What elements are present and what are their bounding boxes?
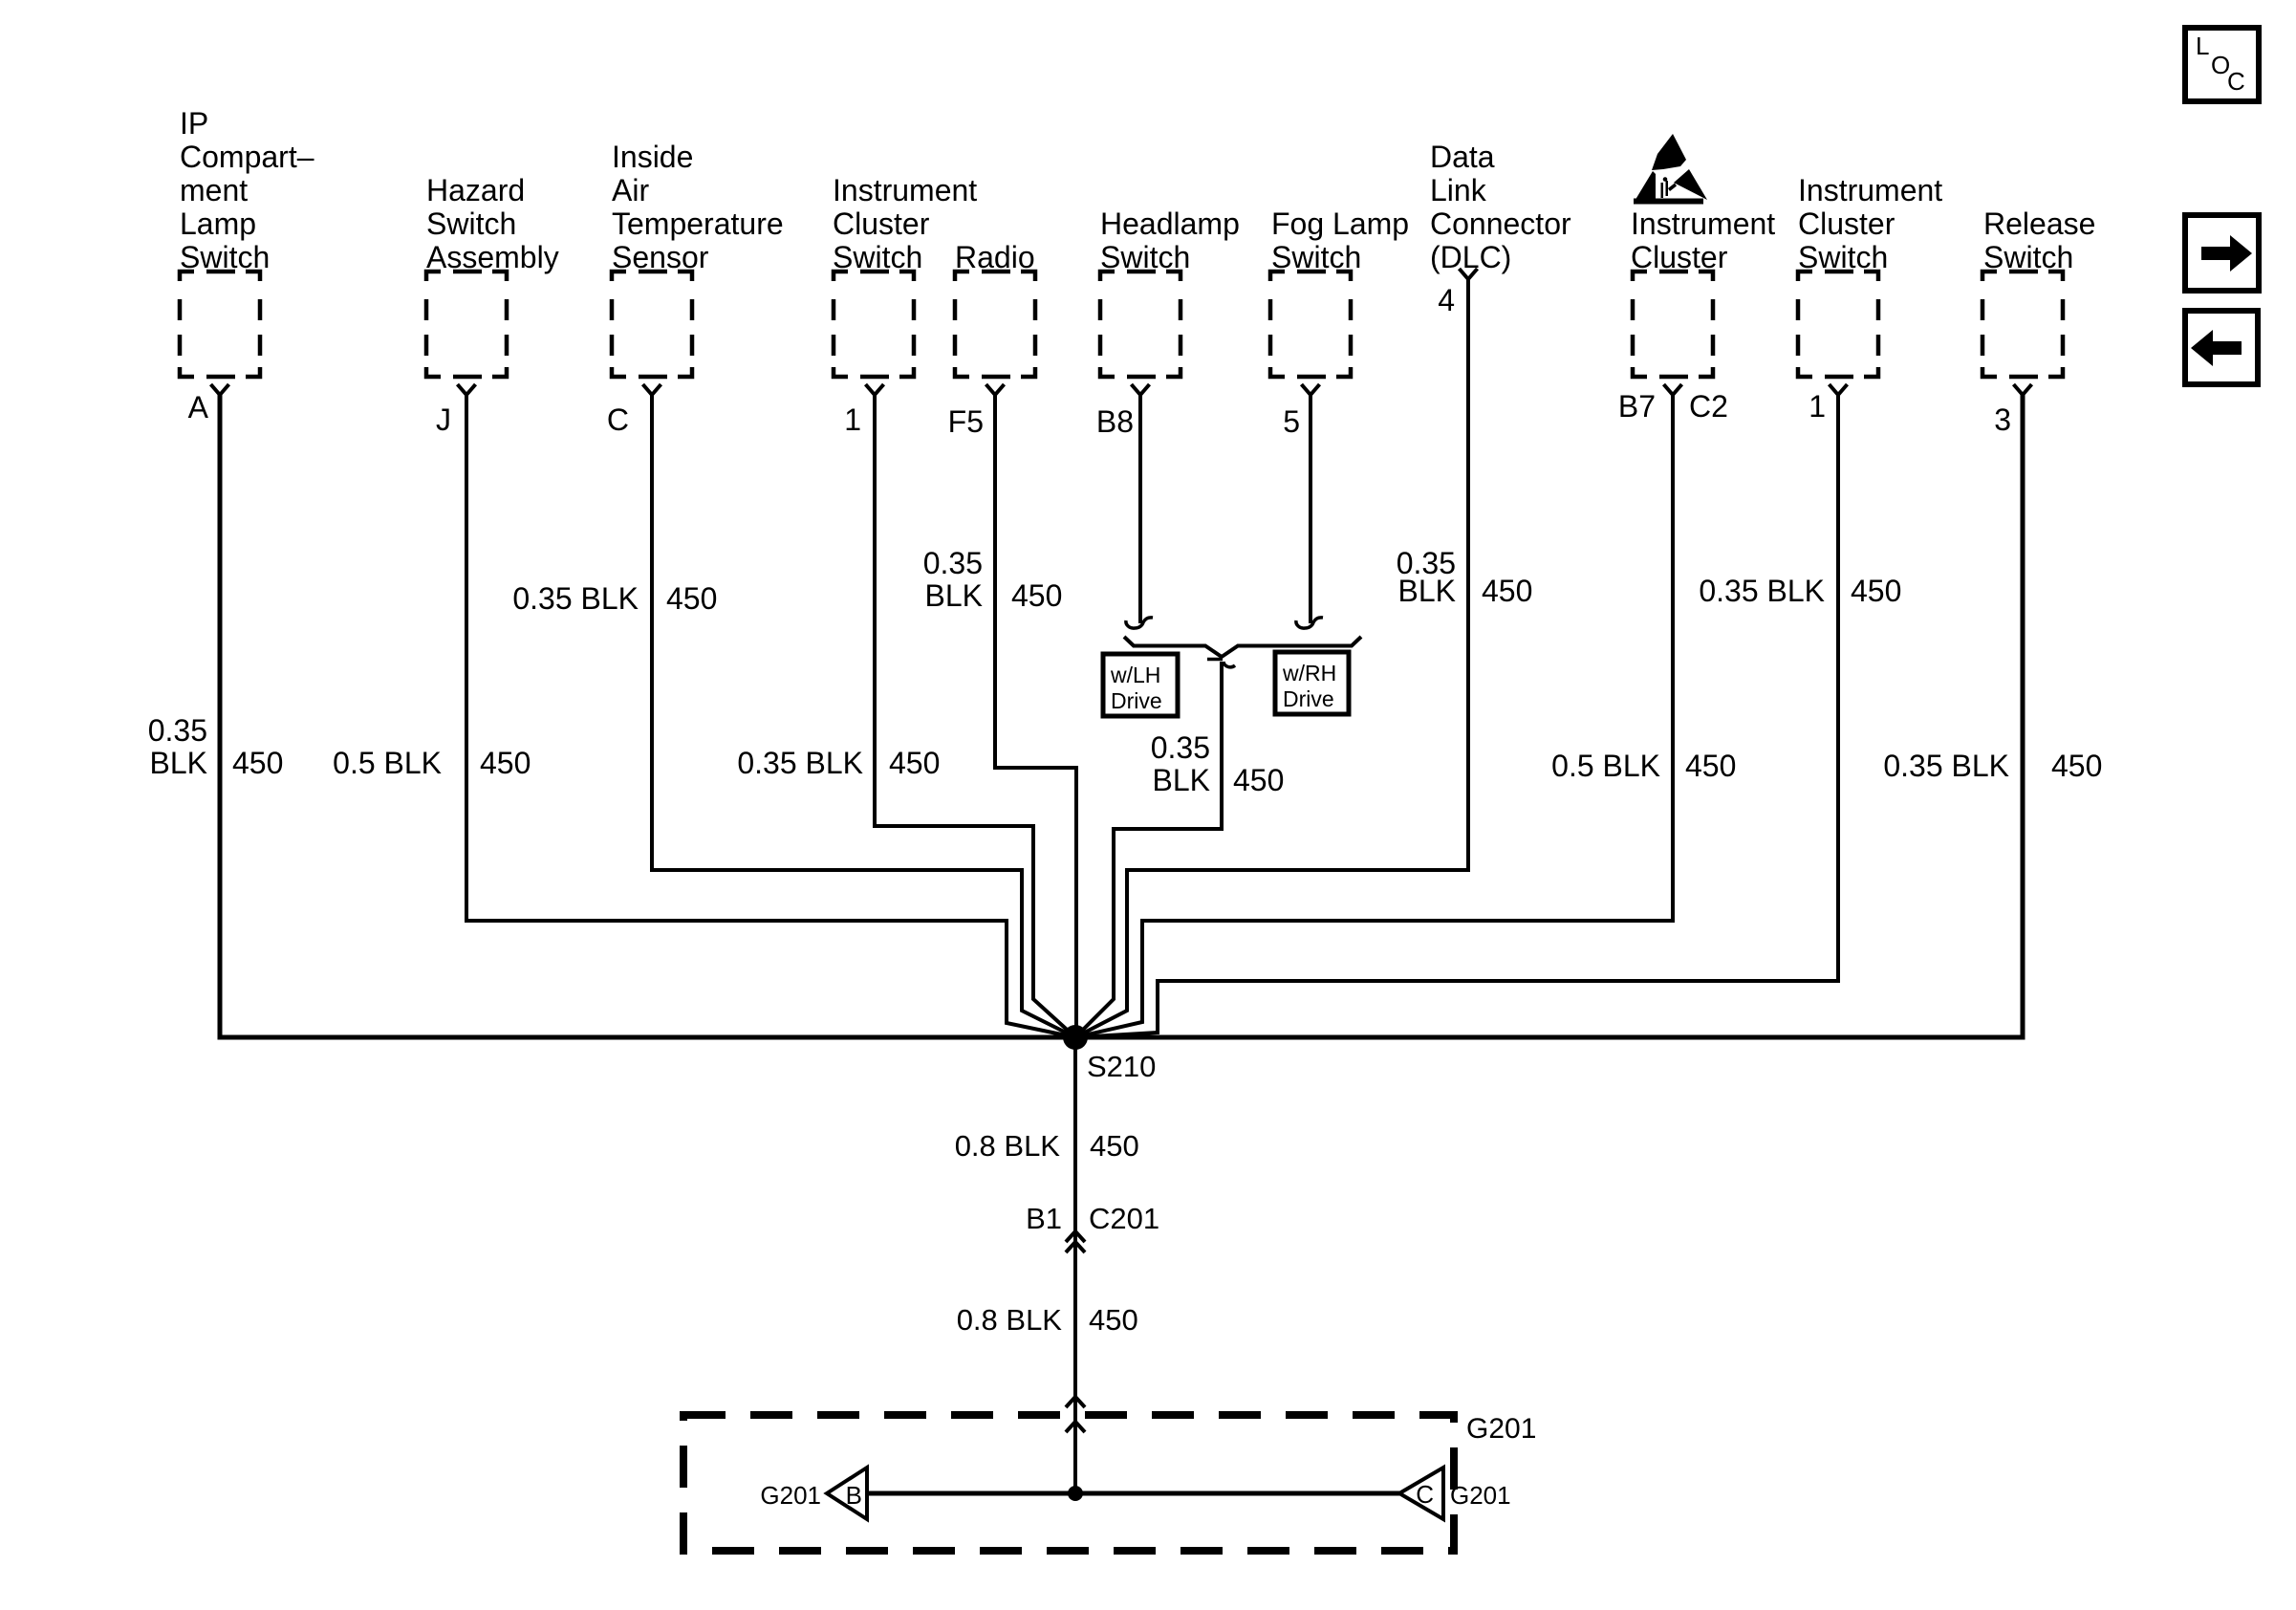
wire: S210 down to G201 <box>1073 1037 1077 1492</box>
wire label 0.35 BLK 450 (pin C wire) <box>512 581 717 616</box>
svg-text:F5: F5 <box>948 404 984 439</box>
connector pin fork, pin 1 <box>1830 384 1848 395</box>
svg-text:BLK: BLK <box>925 578 983 613</box>
label: Instrument Cluster <box>1631 207 1775 274</box>
svg-text:Cluster: Cluster <box>1631 240 1728 274</box>
svg-text:0.35: 0.35 <box>923 546 983 580</box>
connector box: instrument cluster switch right <box>1798 272 1878 377</box>
wire: inside air temp sensor pin C to S210 <box>652 395 1075 1037</box>
svg-text:Switch: Switch <box>1983 240 2073 274</box>
svg-text:0.35: 0.35 <box>1151 730 1210 765</box>
svg-text:450: 450 <box>1851 574 1901 608</box>
connector pin fork, pin 3 <box>2014 384 2032 395</box>
wire: radio pin F5 to S210 <box>995 395 1076 1037</box>
ground lead chevron above G201 <box>1066 1397 1085 1407</box>
junction dot on ground bus <box>1068 1486 1083 1501</box>
wire label 0.35 BLK 450 (cluster switch pin 1 wire) <box>737 746 940 780</box>
wire end curl (fog lamp stub) <box>1296 618 1323 628</box>
wire label 0.5 BLK 450 (instrument cluster wire) <box>1551 749 1736 783</box>
svg-text:w/LH: w/LH <box>1110 663 1160 687</box>
svg-text:5: 5 <box>1283 404 1300 439</box>
connector box: inside air temperature sensor <box>612 272 692 377</box>
wire: IP compartment lamp switch pin A to S210 <box>220 395 1075 1037</box>
svg-text:450: 450 <box>1011 578 1062 613</box>
wire label 0.35 BLK 450 (radio wire) <box>923 546 1063 613</box>
connector pin fork, DLC pin 4 <box>1460 269 1478 279</box>
svg-text:C: C <box>607 402 629 437</box>
connector box: IP compartment lamp switch <box>180 272 260 377</box>
wire label 0.35 BLK 450 (pin A wire) <box>148 713 284 780</box>
wire: instrument cluster switch right pin 1 to S210 <box>1075 395 1838 1037</box>
svg-text:G201: G201 <box>1466 1413 1536 1445</box>
svg-text:Release: Release <box>1983 207 2095 241</box>
connector C201 label B1 <box>1026 1202 1159 1235</box>
svg-text:C: C <box>1416 1480 1434 1509</box>
svg-text:Switch: Switch <box>1100 240 1190 274</box>
svg-text:L: L <box>2196 32 2209 60</box>
wire: instrument cluster B7/C2 to S210 <box>1075 395 1673 1037</box>
svg-text:450: 450 <box>1089 1303 1138 1337</box>
svg-text:Switch: Switch <box>833 240 922 274</box>
label: IP Compartment Lamp Switch <box>180 106 314 274</box>
svg-text:0.5 BLK: 0.5 BLK <box>1551 749 1660 783</box>
svg-text:(DLC): (DLC) <box>1430 240 1511 274</box>
ground branch triangle B <box>827 1468 867 1519</box>
svg-text:Sensor: Sensor <box>612 240 709 274</box>
svg-text:0.35 BLK: 0.35 BLK <box>1699 574 1825 608</box>
connector pin fork, pin C <box>643 384 661 395</box>
svg-text:450: 450 <box>1233 763 1284 797</box>
wire: headlamp switch pin B8 stub (w/LH drive) <box>1138 395 1142 623</box>
ground bus wire inside G201 <box>867 1491 1399 1496</box>
svg-text:1: 1 <box>844 402 861 437</box>
label: Inside Air Temperature Sensor <box>612 140 784 274</box>
svg-text:Radio: Radio <box>955 240 1035 274</box>
svg-text:Drive: Drive <box>1111 688 1162 713</box>
svg-text:0.35 BLK: 0.35 BLK <box>512 581 639 616</box>
svg-text:Switch: Switch <box>1271 240 1361 274</box>
svg-text:3: 3 <box>1994 402 2011 437</box>
svg-text:Cluster: Cluster <box>1798 207 1895 241</box>
svg-text:B1: B1 <box>1026 1202 1062 1235</box>
svg-text:Instrument: Instrument <box>833 173 977 207</box>
svg-text:G201: G201 <box>760 1481 821 1510</box>
svg-text:ment: ment <box>180 173 248 207</box>
svg-text:0.5 BLK: 0.5 BLK <box>333 746 442 780</box>
connector box: instrument cluster switch left <box>834 272 914 377</box>
option box w/LH Drive <box>1103 654 1178 716</box>
svg-text:Lamp: Lamp <box>180 207 256 241</box>
svg-text:0.35 BLK: 0.35 BLK <box>737 746 863 780</box>
svg-text:C201: C201 <box>1089 1202 1159 1235</box>
ESD sensitive device symbol above Instrument Cluster <box>1634 134 1707 205</box>
svg-text:Instrument: Instrument <box>1798 173 1942 207</box>
wire: hazard switch pin J to S210 <box>466 395 1075 1037</box>
svg-text:1: 1 <box>1809 389 1826 424</box>
svg-text:Compart–: Compart– <box>180 140 314 174</box>
connector pin fork, pin B7/C2 <box>1664 384 1682 395</box>
svg-text:0.35 BLK: 0.35 BLK <box>1883 749 2009 783</box>
label: Headlamp Switch <box>1100 207 1240 274</box>
svg-text:450: 450 <box>1090 1129 1139 1163</box>
wire: fog lamp switch pin 5 stub (w/RH drive) <box>1309 395 1312 623</box>
ground branch triangle C <box>1399 1468 1443 1519</box>
svg-text:C2: C2 <box>1689 389 1728 424</box>
connector pin fork, pin B8 <box>1132 384 1150 395</box>
wire: merged headlamp/fog lamp ground to S210 <box>1075 662 1222 1037</box>
svg-text:Instrument: Instrument <box>1631 207 1775 241</box>
merge brace joining headlamp / fog lamp options <box>1124 637 1361 657</box>
svg-text:0.8 BLK: 0.8 BLK <box>955 1129 1061 1163</box>
svg-text:IP: IP <box>180 106 208 141</box>
svg-text:B7: B7 <box>1618 389 1656 424</box>
wire label 0.5 BLK 450 (pin J wire) <box>333 746 531 780</box>
label: Radio <box>955 240 1035 274</box>
svg-text:G201: G201 <box>1450 1481 1511 1510</box>
svg-text:C: C <box>2227 67 2245 96</box>
wire label 0.35 BLK 450 (cluster switch right wire) <box>1699 574 1901 608</box>
wire label 0.8 BLK 450 (upper) <box>955 1129 1139 1163</box>
splice S210 dot <box>1063 1025 1088 1050</box>
connector box: hazard switch assembly <box>426 272 507 377</box>
connector pin fork, pin F5 <box>986 384 1005 395</box>
svg-text:450: 450 <box>666 581 717 616</box>
connector box: fog lamp switch <box>1270 272 1351 377</box>
svg-text:450: 450 <box>889 746 940 780</box>
ground lead chevron below G201 border <box>1066 1422 1085 1432</box>
wire: release switch pin 3 to S210 <box>1075 395 2023 1037</box>
left arrow nav box <box>2185 311 2258 384</box>
right arrow nav box <box>2185 215 2259 291</box>
svg-text:Air: Air <box>612 173 649 207</box>
connector box: radio <box>955 272 1035 377</box>
connector pin fork, pin A <box>211 384 229 395</box>
svg-text:BLK: BLK <box>150 746 207 780</box>
svg-text:B: B <box>846 1481 862 1510</box>
svg-text:Assembly: Assembly <box>426 240 559 274</box>
svg-text:w/RH: w/RH <box>1282 661 1336 685</box>
label: Release Switch <box>1983 207 2095 274</box>
wire end curl (headlamp stub) <box>1126 618 1153 628</box>
label: Instrument Cluster Switch (left) <box>833 173 977 274</box>
ground block G201 dashed box <box>683 1415 1454 1551</box>
svg-text:450: 450 <box>1482 574 1532 608</box>
label: Hazard Switch Assembly <box>426 173 559 274</box>
svg-text:Fog Lamp: Fog Lamp <box>1271 207 1409 241</box>
wire: instrument cluster switch pin 1 to S210 <box>875 395 1075 1037</box>
svg-text:Switch: Switch <box>1798 240 1888 274</box>
connector box: headlamp switch <box>1100 272 1180 377</box>
svg-text:BLK: BLK <box>1398 574 1456 608</box>
connector pin fork, pin J <box>458 384 476 395</box>
svg-text:Link: Link <box>1430 173 1487 207</box>
svg-text:Cluster: Cluster <box>833 207 930 241</box>
svg-text:Inside: Inside <box>612 140 693 174</box>
LOC reference box <box>2185 28 2259 101</box>
wire label 0.35 BLK 450 (DLC wire) <box>1397 546 1533 608</box>
label: Data Link Connector (DLC) <box>1430 140 1571 274</box>
wire: DLC pin 4 to S210 <box>1075 279 1468 1037</box>
label: Instrument Cluster Switch (right) <box>1798 173 1942 274</box>
svg-text:J: J <box>436 402 451 437</box>
svg-text:Headlamp: Headlamp <box>1100 207 1240 241</box>
label: Fog Lamp Switch <box>1271 207 1409 274</box>
option box w/RH Drive <box>1275 652 1349 714</box>
wire label 0.8 BLK 450 (lower) <box>957 1303 1138 1337</box>
svg-text:Drive: Drive <box>1283 686 1334 711</box>
svg-text:BLK: BLK <box>1153 763 1210 797</box>
svg-text:Switch: Switch <box>180 240 270 274</box>
svg-text:450: 450 <box>2051 749 2102 783</box>
wire label 0.35 BLK 450 (merged headlamp/fog wire) <box>1151 730 1285 797</box>
svg-text:Connector: Connector <box>1430 207 1571 241</box>
svg-text:Hazard: Hazard <box>426 173 525 207</box>
svg-text:Switch: Switch <box>426 207 516 241</box>
in-line connector chevron C201 (lower) <box>1066 1242 1085 1252</box>
svg-text:0.8 BLK: 0.8 BLK <box>957 1303 1063 1337</box>
wire label 0.35 BLK 450 (release switch wire) <box>1883 749 2102 783</box>
svg-text:A: A <box>188 390 209 424</box>
svg-text:450: 450 <box>1685 749 1736 783</box>
svg-text:4: 4 <box>1438 283 1455 317</box>
connector pin fork, pin 1 <box>866 384 884 395</box>
svg-text:B8: B8 <box>1096 404 1134 439</box>
svg-text:S210: S210 <box>1087 1050 1156 1083</box>
svg-text:450: 450 <box>232 746 283 780</box>
in-line connector chevron C201 (upper) <box>1066 1231 1085 1242</box>
connector box: release switch <box>1982 272 2063 377</box>
connector box: instrument cluster <box>1633 272 1713 377</box>
connector pin fork, pin 5 <box>1302 384 1320 395</box>
svg-text:0.35: 0.35 <box>148 713 207 748</box>
svg-text:450: 450 <box>480 746 531 780</box>
svg-text:Data: Data <box>1430 140 1495 174</box>
curl at top of merged wire <box>1207 660 1235 667</box>
svg-text:Temperature: Temperature <box>612 207 784 241</box>
